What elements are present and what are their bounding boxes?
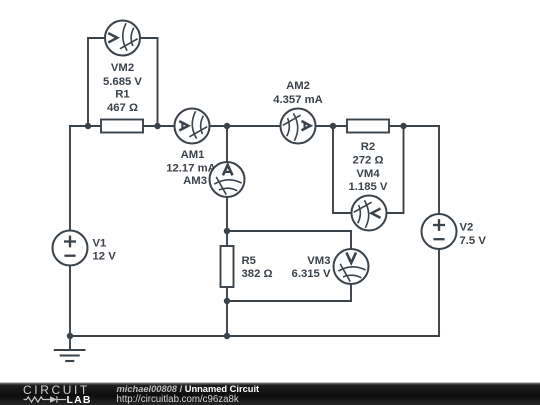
svg-text:7.5 V: 7.5 V — [460, 235, 487, 247]
svg-text:467 Ω: 467 Ω — [107, 102, 138, 114]
svg-text:1.185 V: 1.185 V — [349, 181, 388, 193]
svg-text:5.685 V: 5.685 V — [103, 76, 142, 88]
svg-text:michael00808 / Unnamed Circuit: michael00808 / Unnamed Circuit — [117, 384, 260, 394]
svg-text:272 Ω: 272 Ω — [352, 154, 383, 166]
svg-text:VM2: VM2 — [111, 62, 134, 74]
svg-text:LAB: LAB — [67, 394, 92, 405]
svg-text:http://circuitlab.com/c96za8k: http://circuitlab.com/c96za8k — [117, 394, 239, 405]
svg-text:12 V: 12 V — [93, 250, 117, 262]
svg-text:R2: R2 — [361, 141, 375, 153]
svg-text:R5: R5 — [242, 255, 256, 267]
svg-text:VM3: VM3 — [307, 255, 330, 267]
svg-text:6.315 V: 6.315 V — [292, 268, 331, 280]
svg-text:382 Ω: 382 Ω — [242, 268, 273, 280]
svg-text:AM2: AM2 — [286, 80, 310, 92]
svg-text:V2: V2 — [460, 222, 474, 234]
svg-text:VM4: VM4 — [356, 168, 380, 180]
svg-text:AM1: AM1 — [181, 149, 205, 161]
svg-text:R1: R1 — [115, 89, 129, 101]
svg-text:4.357 mA: 4.357 mA — [273, 94, 323, 106]
svg-text:12.17 mA: 12.17 mA — [166, 163, 216, 175]
svg-text:V1: V1 — [93, 237, 107, 249]
svg-text:AM3: AM3 — [183, 175, 207, 187]
